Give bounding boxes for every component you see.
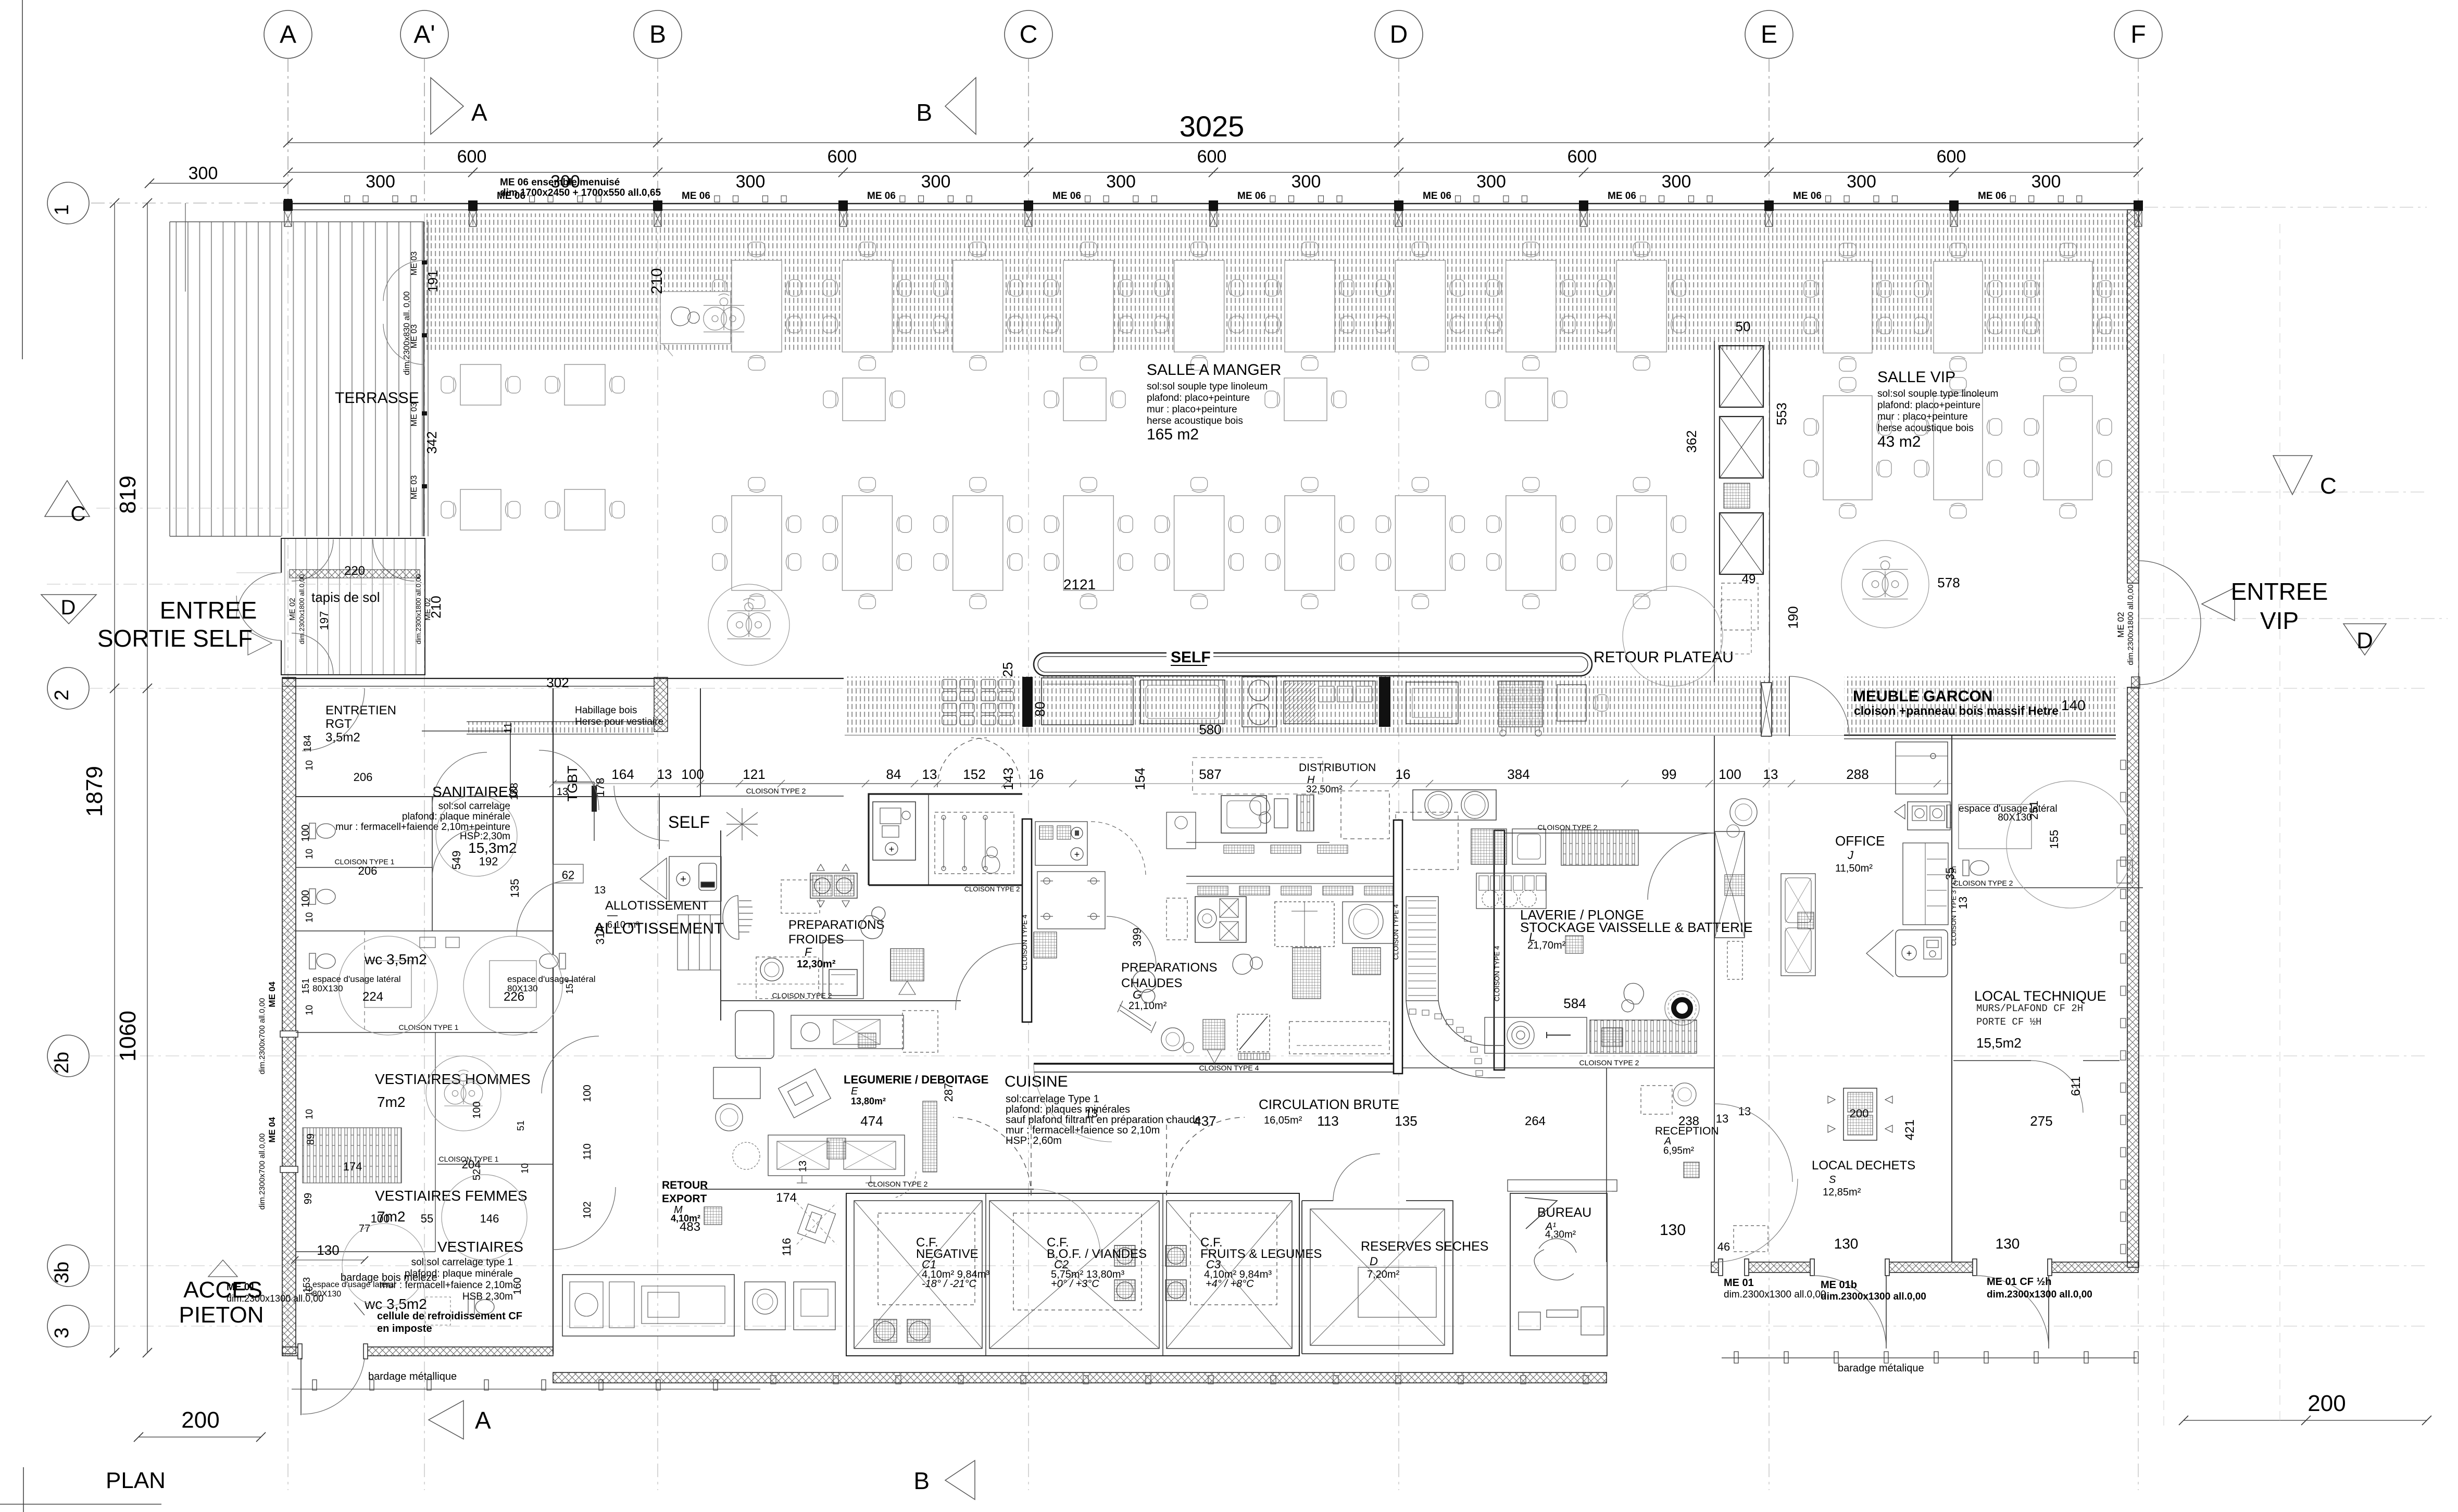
svg-text:D: D (1390, 21, 1408, 48)
svg-text:ALLOTISSEMENT: ALLOTISSEMENT (605, 899, 709, 913)
svg-text:200: 200 (2307, 1391, 2346, 1416)
svg-text:130: 130 (317, 1242, 339, 1258)
svg-text:100: 100 (582, 1085, 593, 1102)
svg-text:ACCES: ACCES (183, 1277, 262, 1303)
svg-text:ME 01: ME 01 (1724, 1277, 1754, 1289)
svg-text:100: 100 (681, 766, 704, 782)
svg-text:11,50m²: 11,50m² (1835, 863, 1873, 874)
svg-text:A: A (475, 1407, 491, 1434)
svg-text:300: 300 (736, 172, 766, 192)
svg-text:140: 140 (2061, 697, 2086, 713)
svg-text:+: + (680, 874, 686, 885)
svg-text:C: C (71, 502, 86, 525)
svg-text:FROIDES: FROIDES (788, 933, 844, 947)
svg-text:80: 80 (1032, 702, 1048, 717)
svg-text:50: 50 (1736, 319, 1751, 334)
svg-text:153: 153 (302, 1277, 312, 1293)
svg-text:151: 151 (565, 978, 575, 994)
svg-text:474: 474 (860, 1113, 883, 1129)
svg-text:C: C (1020, 21, 1038, 48)
svg-text:cellule de refroidissement CF: cellule de refroidissement CF (377, 1311, 522, 1322)
svg-text:C: C (2320, 473, 2337, 499)
svg-text:+: + (1074, 849, 1080, 860)
svg-text:4,30m²: 4,30m² (1545, 1229, 1576, 1240)
svg-text:16: 16 (1029, 766, 1044, 782)
svg-text:plafond: placo+peinture: plafond: placo+peinture (1147, 393, 1250, 404)
svg-text:100: 100 (471, 1101, 483, 1118)
svg-text:10: 10 (304, 760, 315, 771)
svg-text:384: 384 (1507, 766, 1529, 782)
svg-text:99: 99 (1662, 766, 1677, 782)
svg-text:342: 342 (424, 431, 440, 453)
svg-text:13: 13 (922, 766, 937, 782)
svg-text:84: 84 (886, 766, 901, 782)
svg-text:437: 437 (1194, 1113, 1216, 1129)
svg-text:wc 3,5m2: wc 3,5m2 (364, 951, 427, 967)
svg-text:en imposte: en imposte (377, 1323, 432, 1334)
svg-text:ME 03: ME 03 (410, 251, 419, 275)
svg-text:+: + (889, 844, 895, 854)
svg-text:113: 113 (1317, 1113, 1338, 1129)
svg-text:10: 10 (304, 912, 315, 923)
svg-text:bardage bois meleze: bardage bois meleze (341, 1272, 437, 1283)
svg-text:tapis de sol: tapis de sol (311, 589, 380, 605)
svg-text:CLOISON TYPE 4: CLOISON TYPE 4 (1392, 904, 1400, 960)
svg-text:7m2: 7m2 (377, 1094, 405, 1110)
svg-text:300: 300 (1106, 172, 1136, 192)
svg-text:584: 584 (1563, 996, 1586, 1011)
svg-text:13: 13 (1957, 897, 1970, 909)
svg-text:10: 10 (304, 1005, 315, 1015)
svg-text:SALLE VIP: SALLE VIP (1877, 369, 1955, 386)
svg-text:A: A (471, 99, 487, 126)
svg-text:421: 421 (1903, 1119, 1917, 1140)
svg-text:116: 116 (780, 1238, 793, 1256)
svg-text:21,70m²: 21,70m² (1527, 940, 1566, 951)
svg-text:B: B (913, 1467, 930, 1494)
svg-text:600: 600 (1937, 147, 1966, 167)
svg-text:mur : fermacell+faience so 2,1: mur : fermacell+faience so 2,10m (1006, 1125, 1160, 1136)
svg-text:ENTREE: ENTREE (2231, 578, 2328, 605)
svg-text:ME 01b: ME 01b (1821, 1279, 1857, 1291)
svg-text:130: 130 (1660, 1221, 1686, 1239)
svg-text:dim.2300x1300 all.0,00: dim.2300x1300 all.0,00 (1724, 1289, 1826, 1300)
svg-text:VIP: VIP (2260, 607, 2299, 634)
svg-text:+: + (1907, 948, 1912, 959)
svg-text:2b: 2b (51, 1052, 73, 1074)
svg-text:13: 13 (1763, 766, 1778, 782)
svg-text:Habillage bois: Habillage bois (575, 705, 637, 716)
svg-text:174: 174 (343, 1160, 362, 1173)
svg-text:J: J (1847, 849, 1854, 862)
svg-text:E: E (1761, 21, 1777, 48)
svg-text:13,80m²: 13,80m² (851, 1096, 886, 1106)
svg-text:dim.2300x830 all. 0,00: dim.2300x830 all. 0,00 (403, 291, 411, 375)
svg-text:300: 300 (189, 163, 218, 183)
svg-text:PREPARATIONS: PREPARATIONS (788, 918, 884, 932)
svg-text:191: 191 (425, 270, 441, 292)
svg-text:287: 287 (942, 1083, 955, 1102)
svg-text:dim.2300x1800 all.0,00: dim.2300x1800 all.0,00 (2126, 584, 2135, 665)
svg-text:3,5m2: 3,5m2 (325, 730, 360, 745)
svg-text:ME 04: ME 04 (267, 1117, 277, 1143)
svg-text:1: 1 (51, 204, 73, 215)
svg-text:CLOISON TYPE 2: CLOISON TYPE 2 (746, 787, 806, 795)
svg-text:espace d'usage latéral: espace d'usage latéral (312, 974, 401, 984)
svg-text:600: 600 (1197, 147, 1227, 167)
svg-text:600: 600 (457, 147, 487, 167)
svg-text:SALLE A MANGER: SALLE A MANGER (1147, 361, 1281, 379)
svg-text:164: 164 (611, 766, 634, 782)
svg-text:300: 300 (1291, 172, 1321, 192)
svg-text:190: 190 (1785, 606, 1801, 628)
svg-text:7,20m²: 7,20m² (1367, 1269, 1400, 1280)
svg-text:102: 102 (582, 1201, 593, 1218)
svg-text:2121: 2121 (1063, 576, 1096, 593)
svg-text:100: 100 (300, 890, 311, 907)
svg-text:plafond: placo+peinture: plafond: placo+peinture (1877, 400, 1980, 411)
svg-text:10: 10 (520, 1163, 530, 1174)
svg-text:13: 13 (657, 766, 672, 782)
svg-text:-18° / -21°C: -18° / -21°C (922, 1278, 976, 1290)
svg-text:CLOISON TYPE 2: CLOISON TYPE 2 (868, 1180, 928, 1188)
svg-text:CLOISON TYPE 4: CLOISON TYPE 4 (1493, 946, 1501, 1002)
svg-text:100: 100 (300, 824, 311, 841)
svg-text:300: 300 (1662, 172, 1691, 192)
svg-text:2: 2 (51, 689, 73, 700)
svg-text:13: 13 (1738, 1105, 1751, 1118)
svg-text:sauf plafond filtrant en prépa: sauf plafond filtrant en préparation cha… (1006, 1114, 1201, 1126)
svg-text:206: 206 (354, 771, 373, 784)
svg-text:dim.2300x700 all.0,00: dim.2300x700 all.0,00 (258, 1133, 267, 1210)
svg-text:CLOISON TYPE 2: CLOISON TYPE 2 (1953, 879, 2013, 887)
svg-text:dim.1700x2450 + 1700x550 all.0: dim.1700x2450 + 1700x550 all.0,65 (500, 187, 661, 198)
svg-text:SELF: SELF (668, 813, 710, 831)
svg-text:51: 51 (516, 1120, 526, 1131)
svg-text:dim.2300x1300 all.0,00: dim.2300x1300 all.0,00 (1821, 1291, 1926, 1302)
svg-text:VESTIAIRES HOMMES: VESTIAIRES HOMMES (375, 1071, 531, 1087)
svg-text:ME 03: ME 03 (410, 475, 419, 499)
svg-text:362: 362 (1684, 430, 1699, 452)
svg-text:RESERVES SECHES: RESERVES SECHES (1361, 1239, 1488, 1254)
svg-text:CIRCULATION BRUTE: CIRCULATION BRUTE (1259, 1097, 1399, 1112)
svg-text:99: 99 (303, 1193, 314, 1204)
svg-text:ME 02: ME 02 (2116, 612, 2126, 637)
svg-text:110: 110 (582, 1143, 593, 1160)
svg-text:A: A (280, 21, 296, 48)
svg-text:dim.2300x1300 all.0,00: dim.2300x1300 all.0,00 (1987, 1289, 2092, 1300)
svg-text:130: 130 (1996, 1236, 2020, 1252)
svg-text:ME 01 CF ½h: ME 01 CF ½h (1987, 1276, 2051, 1288)
svg-text:32,50m²: 32,50m² (1306, 784, 1343, 795)
svg-text:80X130: 80X130 (507, 984, 538, 993)
svg-text:587: 587 (1199, 766, 1221, 782)
svg-text:154: 154 (1132, 767, 1148, 790)
svg-text:15,3m2: 15,3m2 (468, 840, 517, 856)
svg-text:135: 135 (1395, 1113, 1417, 1129)
svg-text:ALLOTISSEMENT: ALLOTISSEMENT (594, 920, 723, 937)
svg-text:MURS/PLAFOND CF 2H: MURS/PLAFOND CF 2H (1976, 1003, 2083, 1014)
svg-text:206: 206 (358, 864, 378, 877)
svg-text:CUISINE: CUISINE (1005, 1073, 1068, 1090)
svg-text:SORTIE SELF: SORTIE SELF (97, 625, 253, 652)
svg-text:25: 25 (1000, 662, 1015, 677)
svg-text:13: 13 (1085, 1107, 1098, 1120)
svg-text:3b: 3b (51, 1262, 73, 1283)
svg-text:ME 06: ME 06 (1978, 191, 2006, 201)
svg-text:121: 121 (743, 766, 765, 782)
svg-text:16,05m²: 16,05m² (1264, 1115, 1302, 1126)
svg-text:611: 611 (2069, 1076, 2083, 1096)
svg-text:300: 300 (921, 172, 951, 192)
svg-text:ME 06: ME 06 (1423, 191, 1451, 201)
svg-text:herse acoustique bois: herse acoustique bois (1147, 415, 1243, 426)
svg-text:483: 483 (680, 1220, 700, 1234)
svg-text:wc 3,5m2: wc 3,5m2 (364, 1296, 427, 1312)
svg-text:SANITAIRES: SANITAIRES (432, 784, 518, 800)
svg-text:mur : placo+peinture: mur : placo+peinture (1877, 411, 1968, 422)
svg-text:EXPORT: EXPORT (662, 1193, 707, 1205)
svg-text:LOCAL TECHNIQUE: LOCAL TECHNIQUE (1974, 988, 2106, 1004)
svg-text:sol:sol carrelage type 1: sol:sol carrelage type 1 (411, 1257, 513, 1268)
svg-text:D: D (2356, 628, 2373, 653)
svg-text:ME 06: ME 06 (1793, 191, 1822, 201)
svg-text:G: G (1133, 988, 1142, 1001)
svg-text:3025: 3025 (1180, 110, 1245, 143)
svg-text:275: 275 (2030, 1113, 2052, 1129)
svg-text:sol:sol souple type linoleum: sol:sol souple type linoleum (1877, 388, 1998, 399)
svg-text:plafond: plaques minérales: plafond: plaques minérales (1006, 1104, 1130, 1115)
svg-text:174: 174 (776, 1191, 797, 1205)
svg-text:80X130: 80X130 (312, 984, 343, 993)
svg-text:220: 220 (344, 564, 365, 578)
svg-text:+4° / +8°C: +4° / +8°C (1206, 1278, 1254, 1290)
svg-text:+0° / +3°C: +0° / +3°C (1051, 1278, 1099, 1290)
svg-text:RETOUR PLATEAU: RETOUR PLATEAU (1594, 649, 1734, 666)
svg-text:ME 06 ensemble menuisé: ME 06 ensemble menuisé (500, 177, 620, 188)
svg-text:13: 13 (1716, 1112, 1728, 1125)
svg-text:62: 62 (562, 868, 574, 881)
svg-text:B: B (649, 21, 666, 48)
svg-text:CLOISON TYPE 2: CLOISON TYPE 2 (1579, 1059, 1639, 1067)
svg-text:300: 300 (1847, 172, 1876, 192)
svg-text:SELF: SELF (1171, 649, 1211, 666)
svg-text:espace d'usage latéral: espace d'usage latéral (507, 974, 596, 984)
svg-text:160: 160 (512, 1277, 523, 1294)
svg-text:OFFICE: OFFICE (1835, 833, 1885, 849)
svg-text:LEGUMERIE / DEBOITAGE: LEGUMERIE / DEBOITAGE (844, 1073, 988, 1086)
svg-text:RGT: RGT (325, 717, 352, 731)
svg-text:CLOISON TYPE 4: CLOISON TYPE 4 (1021, 915, 1029, 971)
svg-text:224: 224 (362, 990, 383, 1004)
svg-text:13: 13 (557, 786, 568, 798)
svg-text:16: 16 (1396, 766, 1411, 782)
svg-text:80X130: 80X130 (1998, 812, 2032, 823)
svg-text:46: 46 (1717, 1240, 1730, 1253)
svg-text:197: 197 (318, 611, 331, 631)
svg-text:PREPARATIONS: PREPARATIONS (1121, 961, 1217, 975)
svg-text:LOCAL DECHETS: LOCAL DECHETS (1812, 1158, 1915, 1173)
svg-text:553: 553 (1774, 402, 1789, 425)
svg-text:152: 152 (963, 766, 985, 782)
svg-text:ENTRETIEN: ENTRETIEN (325, 703, 396, 717)
svg-text:184: 184 (302, 735, 313, 752)
svg-text:15,5m2: 15,5m2 (1976, 1035, 2022, 1051)
svg-text:VESTIAIRES: VESTIAIRES (437, 1239, 523, 1255)
svg-text:ME 06: ME 06 (1052, 191, 1081, 201)
svg-text:F: F (805, 946, 812, 959)
svg-text:S: S (1829, 1174, 1836, 1186)
svg-text:578: 578 (1937, 575, 1960, 590)
svg-text:21,10m²: 21,10m² (1128, 1000, 1167, 1012)
svg-text:135: 135 (508, 879, 521, 898)
svg-text:sol:carrelage Type 1: sol:carrelage Type 1 (1006, 1093, 1099, 1105)
svg-text:TERRASSE: TERRASSE (335, 389, 419, 407)
svg-text:302: 302 (546, 675, 569, 690)
svg-text:baradge métalique: baradge métalique (1838, 1363, 1924, 1374)
svg-text:188: 188 (509, 783, 520, 800)
svg-text:151: 151 (300, 978, 311, 994)
svg-text:ME 02: ME 02 (288, 598, 297, 620)
svg-text:819: 819 (115, 475, 141, 513)
svg-text:12,30m²: 12,30m² (797, 959, 836, 970)
svg-text:155: 155 (2048, 830, 2061, 849)
svg-text:100: 100 (371, 1212, 390, 1225)
svg-text:DISTRIBUTION: DISTRIBUTION (1299, 762, 1376, 774)
svg-text:130: 130 (1834, 1236, 1859, 1252)
svg-text:549: 549 (450, 851, 463, 870)
svg-text:sol:sol souple type linoleum: sol:sol souple type linoleum (1147, 381, 1268, 392)
svg-text:CLOISON TYPE 4: CLOISON TYPE 4 (1199, 1064, 1259, 1072)
svg-text:600: 600 (827, 147, 857, 167)
svg-text:MEUBLE GARCON: MEUBLE GARCON (1853, 688, 1992, 705)
svg-text:BUREAU: BUREAU (1537, 1205, 1591, 1220)
svg-text:11: 11 (503, 723, 514, 734)
svg-text:ENTREE: ENTREE (160, 597, 257, 624)
svg-text:288: 288 (1846, 766, 1868, 782)
svg-text:1060: 1060 (115, 1011, 141, 1062)
svg-text:RETOUR: RETOUR (662, 1179, 708, 1191)
svg-text:bardage métallique: bardage métallique (368, 1371, 457, 1382)
svg-text:CLOISON TYPE 1: CLOISON TYPE 1 (399, 1023, 459, 1031)
svg-text:300: 300 (366, 172, 395, 192)
svg-text:43 m2: 43 m2 (1877, 433, 1921, 450)
svg-text:77: 77 (359, 1223, 370, 1234)
svg-text:E: E (851, 1086, 858, 1097)
svg-text:89: 89 (305, 1133, 317, 1145)
svg-text:100: 100 (1719, 766, 1741, 782)
svg-text:dim.2300x1800 all.0,00: dim.2300x1800 all.0,00 (298, 574, 306, 644)
svg-text:200: 200 (1850, 1107, 1869, 1120)
svg-text:143: 143 (1000, 767, 1016, 790)
svg-text:D: D (61, 596, 76, 619)
svg-text:plafond: plaque minérale: plafond: plaque minérale (402, 811, 510, 822)
svg-text:Herse pour vestiaire: Herse pour vestiaire (575, 716, 663, 727)
svg-text:F: F (2130, 21, 2146, 48)
svg-text:CLOISON TYPE 2: CLOISON TYPE 2 (964, 885, 1020, 893)
svg-text:mur : placo+peinture: mur : placo+peinture (1147, 404, 1237, 415)
svg-text:ME 06: ME 06 (1237, 191, 1266, 201)
svg-text:251: 251 (2027, 801, 2040, 820)
svg-text:ME 02: ME 02 (423, 598, 432, 620)
svg-text:10: 10 (304, 849, 315, 859)
svg-text:35: 35 (1943, 867, 1957, 880)
svg-text:HSP: 2,60m: HSP: 2,60m (1006, 1135, 1062, 1146)
svg-text:A': A' (413, 21, 435, 48)
svg-text:49: 49 (1742, 572, 1756, 586)
svg-text:300: 300 (1476, 172, 1506, 192)
svg-text:HSB 2,30m: HSB 2,30m (462, 1291, 513, 1302)
svg-text:ME 06: ME 06 (1608, 191, 1636, 201)
svg-text:cloison +panneau bois massif H: cloison +panneau bois massif Hetre (1854, 704, 2059, 717)
svg-text:ME 04: ME 04 (267, 981, 277, 1007)
svg-text:PORTE CF ½H: PORTE CF ½H (1976, 1016, 2041, 1028)
svg-text:146: 146 (480, 1212, 499, 1225)
svg-text:D: D (1370, 1255, 1378, 1268)
svg-text:dim.2300x1800 all.0,00: dim.2300x1800 all.0,00 (415, 574, 422, 644)
svg-text:PLAN: PLAN (106, 1468, 166, 1493)
svg-text:600: 600 (1567, 147, 1597, 167)
svg-text:52: 52 (471, 1169, 483, 1180)
svg-text:264: 264 (1525, 1114, 1546, 1128)
svg-text:3: 3 (51, 1327, 73, 1338)
svg-text:300: 300 (2031, 172, 2061, 192)
svg-text:B: B (916, 99, 932, 126)
svg-text:192: 192 (479, 855, 498, 868)
svg-text:herse acoustique bois: herse acoustique bois (1877, 423, 1974, 434)
svg-text:dim.2300x700 all.0,00: dim.2300x700 all.0,00 (258, 998, 267, 1075)
svg-text:55: 55 (421, 1212, 433, 1225)
svg-text:165 m2: 165 m2 (1147, 426, 1199, 443)
svg-text:13: 13 (594, 885, 606, 896)
svg-text:200: 200 (181, 1407, 219, 1433)
svg-text:210: 210 (648, 268, 666, 294)
svg-text:6,95m²: 6,95m² (1663, 1145, 1694, 1156)
svg-text:12,85m²: 12,85m² (1823, 1187, 1861, 1198)
svg-text:10: 10 (304, 1109, 315, 1119)
svg-text:ME 06: ME 06 (682, 191, 710, 201)
svg-text:CHAUDES: CHAUDES (1121, 976, 1182, 990)
svg-text:PIETON: PIETON (179, 1302, 264, 1328)
svg-text:13: 13 (797, 1161, 809, 1172)
svg-text:1879: 1879 (82, 766, 107, 817)
svg-text:ME 06: ME 06 (867, 191, 896, 201)
